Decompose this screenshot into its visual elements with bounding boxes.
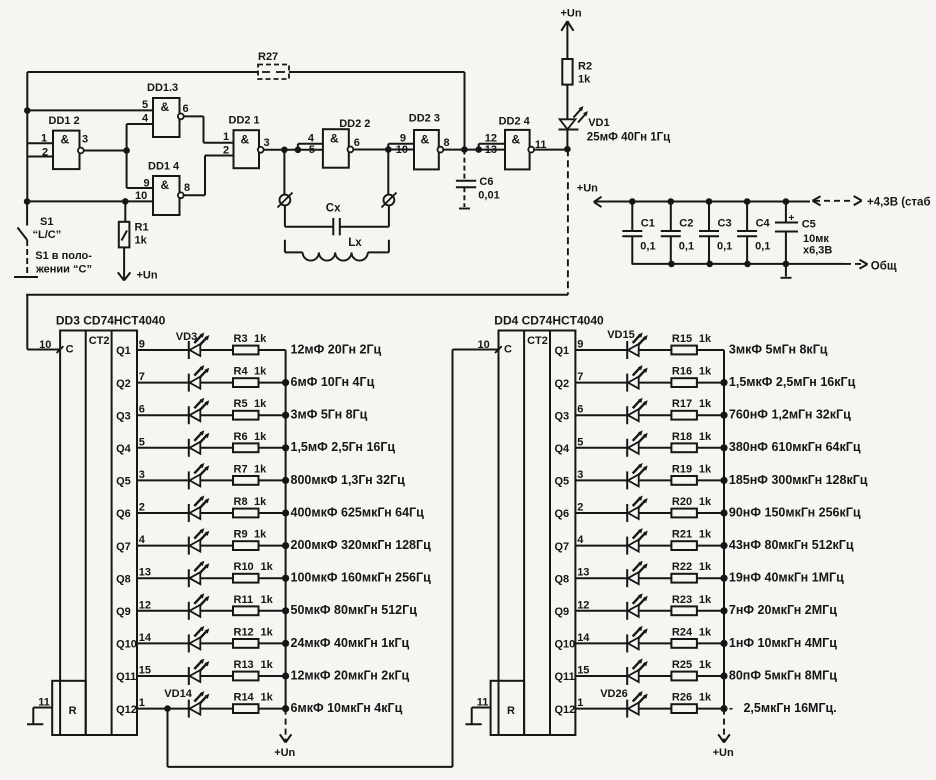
- wire: [200, 610, 233, 612]
- svg-text:6: 6: [577, 404, 583, 416]
- svg-text:1k: 1k: [254, 463, 267, 475]
- node bus junction: [282, 640, 289, 647]
- LED VD6: [189, 430, 210, 457]
- svg-text:90нФ 150мкГн 256кГц: 90нФ 150мкГн 256кГц: [729, 505, 861, 519]
- svg-text:1нФ 10мкГн 4МГц: 1нФ 10мкГн 4МГц: [729, 636, 837, 650]
- wire: [697, 479, 724, 481]
- svg-text:DD4 CD74HCT4040: DD4 CD74HCT4040: [494, 314, 604, 328]
- power +Un arrow at DD4 bus: [713, 709, 734, 759]
- NAND gate DD2.4: [499, 116, 534, 170]
- svg-text:0,1: 0,1: [640, 241, 655, 253]
- wire: [697, 447, 724, 449]
- svg-text:C5: C5: [802, 219, 816, 231]
- svg-text:C1: C1: [641, 218, 655, 230]
- svg-text:S1: S1: [40, 216, 53, 228]
- resistor R6 1k: [233, 431, 267, 452]
- node bus junction: [720, 412, 727, 419]
- node bus junction: [282, 477, 289, 484]
- wire to Cx left terminal: [283, 150, 285, 195]
- svg-text:12: 12: [577, 599, 589, 611]
- wire: [137, 708, 189, 710]
- wire DD3 Q12 to DD4 clock routing: [168, 350, 499, 767]
- resistor R12 1k: [233, 626, 274, 647]
- inductor Lx (device under test): [285, 237, 389, 261]
- svg-text:+Un: +Un: [274, 747, 295, 759]
- wire feedback vertical from top rail: [464, 72, 466, 150]
- svg-text:380нФ 610мкГн 64кГц: 380нФ 610мкГн 64кГц: [729, 440, 861, 454]
- svg-text:9: 9: [400, 133, 406, 145]
- resistor R16 1k: [671, 366, 712, 387]
- node DD2.2 input split: [295, 147, 302, 154]
- R sub-box of DD3: [52, 681, 85, 735]
- svg-text:10: 10: [478, 339, 490, 351]
- svg-text:0,01: 0,01: [478, 190, 499, 202]
- svg-text:1,5мФ 2,5Гн 16Гц: 1,5мФ 2,5Гн 16Гц: [291, 440, 396, 454]
- LED VD25: [627, 659, 648, 686]
- wire: [200, 675, 233, 677]
- resistor R27 (dashed optional): [258, 51, 289, 79]
- wire: [259, 382, 286, 384]
- svg-text:+4,3В (стаб: +4,3В (стаб: [867, 197, 931, 209]
- LED VD5: [189, 398, 210, 425]
- wire DD2.3 output: [443, 149, 478, 151]
- wire: [697, 414, 724, 416]
- wire: [575, 642, 627, 644]
- svg-text:0,1: 0,1: [717, 241, 732, 253]
- svg-text:Q7: Q7: [555, 541, 570, 553]
- svg-text:Q5: Q5: [555, 476, 570, 488]
- power +Un arrow top: [561, 8, 582, 60]
- resistor R18 1k: [671, 431, 712, 452]
- svg-text:1k: 1k: [699, 463, 712, 475]
- svg-text:1k: 1k: [699, 431, 712, 443]
- node bus junction: [282, 412, 289, 419]
- svg-text:7: 7: [139, 371, 145, 383]
- svg-text:DD1 2: DD1 2: [49, 115, 80, 127]
- wire: [137, 642, 189, 644]
- node DD2.4 input split: [475, 146, 482, 153]
- wire: [575, 708, 627, 710]
- svg-text:C2: C2: [679, 218, 693, 230]
- svg-text:1k: 1k: [254, 333, 267, 345]
- svg-text:R21: R21: [672, 529, 692, 541]
- resistor R25 1k: [671, 659, 712, 680]
- svg-text:C: C: [66, 344, 74, 356]
- LED VD22: [627, 561, 648, 588]
- LED VD1: [559, 106, 671, 144]
- resistor R3 1k: [233, 333, 267, 354]
- resistor R23 1k: [671, 594, 712, 615]
- svg-text:4: 4: [142, 113, 149, 125]
- svg-text:760нФ 1,2мГн 32кГц: 760нФ 1,2мГн 32кГц: [729, 408, 851, 422]
- svg-text:100мкФ 160мкГн 256Гц: 100мкФ 160мкГн 256Гц: [291, 571, 432, 585]
- svg-text:- 2,5мкГн 16МГц.: - 2,5мкГн 16МГц.: [729, 701, 837, 715]
- svg-text:12: 12: [485, 133, 497, 145]
- wire: [639, 447, 672, 449]
- wire: [137, 675, 189, 677]
- wire: [639, 577, 672, 579]
- wire ground rail (Obsh): [632, 260, 897, 273]
- svg-text:1k: 1k: [699, 333, 712, 345]
- svg-text:6мкФ 10мкГн 4кГц: 6мкФ 10мкГн 4кГц: [291, 701, 403, 715]
- wire: [137, 447, 189, 449]
- svg-text:R15: R15: [672, 333, 692, 345]
- resistor R4 1k: [233, 366, 267, 387]
- svg-text:3: 3: [139, 469, 145, 481]
- wire: [259, 642, 286, 644]
- capacitor C6 0,01: [456, 150, 500, 209]
- svg-text:3: 3: [264, 137, 270, 149]
- wire: [200, 708, 233, 710]
- wire: [575, 512, 627, 514]
- svg-text:9: 9: [144, 178, 150, 190]
- resistor R17 1k: [671, 398, 712, 419]
- wire bottom rail of oscillator loop: [26, 294, 568, 296]
- wire DD2.1 output: [264, 149, 298, 151]
- svg-text:R4: R4: [234, 366, 249, 378]
- svg-text:3: 3: [82, 134, 88, 146]
- wire vertical to DD1.3 pin4 / DD1.4 pin9: [126, 124, 128, 188]
- terminal X1 (Cx/Lx left socket): [278, 193, 293, 208]
- svg-text:43нФ 80мкГн 512кГц: 43нФ 80мкГн 512кГц: [729, 538, 854, 552]
- wire: [575, 382, 627, 384]
- arrow pair to +4,3V supply: [813, 196, 931, 209]
- wire VD1 to node: [566, 130, 568, 150]
- resistor R26 1k: [671, 692, 712, 713]
- wire: [200, 545, 233, 547]
- svg-text:12мкФ 20мкГн 2кГц: 12мкФ 20мкГн 2кГц: [291, 668, 410, 682]
- NAND gate DD2.3: [409, 112, 444, 169]
- svg-text:Q10: Q10: [555, 639, 576, 651]
- wire DD2.4 output to VD1 node: [534, 149, 567, 151]
- svg-text:8: 8: [444, 137, 450, 149]
- svg-text:10: 10: [39, 339, 51, 351]
- LED VD9: [189, 528, 210, 555]
- svg-text:Q9: Q9: [555, 606, 570, 618]
- svg-text:13: 13: [577, 567, 589, 579]
- svg-text:R11: R11: [234, 594, 254, 606]
- node bus junction: [720, 607, 727, 614]
- wire: [259, 675, 286, 677]
- capacitor C4 0,1: [737, 202, 770, 264]
- svg-text:5: 5: [577, 436, 583, 448]
- wire VD1 node down to bottom rail: [567, 149, 569, 295]
- capacitor C2 0,1: [661, 202, 694, 264]
- wire: [575, 349, 627, 351]
- resistor R21 1k: [671, 529, 712, 550]
- node Cx left terminal tap: [281, 147, 288, 154]
- svg-text:1k: 1k: [135, 235, 148, 247]
- svg-text:R19: R19: [672, 463, 692, 475]
- svg-text:0,1: 0,1: [755, 241, 770, 253]
- svg-text:C: C: [504, 344, 512, 356]
- wire top feedback rail: [27, 71, 258, 73]
- wire: [200, 447, 233, 449]
- wire left drop to DD3 clock: [26, 295, 28, 350]
- svg-text:C6: C6: [479, 176, 493, 188]
- svg-text:R: R: [507, 705, 515, 717]
- svg-text:Q12: Q12: [116, 704, 137, 716]
- svg-text:1k: 1k: [699, 561, 712, 573]
- node C6 / feedback junction: [461, 146, 468, 153]
- LED VD3: [189, 333, 210, 360]
- node bus junction: [282, 705, 289, 712]
- node bus junction: [282, 379, 289, 386]
- svg-text:R12: R12: [234, 626, 254, 638]
- ground symbol at DD3 pin 11: [27, 708, 43, 725]
- svg-text:1k: 1k: [699, 496, 712, 508]
- wire: [259, 610, 286, 612]
- node bus junction: [282, 542, 289, 549]
- wire: [639, 382, 672, 384]
- wire: [639, 708, 672, 710]
- wire split stub to DD2.3 pins 9/10: [387, 144, 389, 150]
- node bus junction: [282, 575, 289, 582]
- wire: [639, 414, 672, 416]
- svg-text:2: 2: [42, 147, 48, 159]
- svg-text:Q9: Q9: [116, 606, 131, 618]
- svg-text:R14: R14: [234, 692, 255, 704]
- wire: [259, 414, 286, 416]
- svg-text:24мкФ 40мкГн 1кГц: 24мкФ 40мкГн 1кГц: [291, 636, 410, 650]
- svg-text:R27: R27: [258, 51, 278, 63]
- svg-text:&: &: [330, 132, 339, 146]
- svg-text:1k: 1k: [261, 561, 274, 573]
- svg-text:800мкФ 1,3Гн 32Гц: 800мкФ 1,3Гн 32Гц: [291, 473, 406, 487]
- node bus junction: [720, 640, 727, 647]
- svg-text:15: 15: [577, 665, 589, 677]
- resistor R24 1k: [671, 626, 712, 647]
- svg-text:&: &: [421, 133, 430, 147]
- svg-text:R26: R26: [672, 692, 692, 704]
- LED VD13: [189, 659, 210, 686]
- svg-text:C4: C4: [756, 218, 771, 230]
- svg-text:Q1: Q1: [555, 345, 570, 357]
- svg-text:1: 1: [577, 697, 583, 709]
- node R1 tap: [122, 198, 129, 205]
- NAND gate DD1.2: [49, 115, 84, 169]
- wire: [575, 545, 627, 547]
- LED VD7: [189, 463, 210, 490]
- wire: [575, 447, 627, 449]
- LED VD4: [189, 365, 210, 392]
- svg-text:1k: 1k: [699, 398, 712, 410]
- svg-text:6мФ 10Гн 4Гц: 6мФ 10Гн 4Гц: [291, 375, 375, 389]
- LED VD26: [627, 691, 648, 718]
- resistor R11 1k: [233, 594, 274, 615]
- wire lower input net y=201: [27, 200, 153, 202]
- wire: [259, 545, 286, 547]
- wire: [200, 577, 233, 579]
- wire: [639, 675, 672, 677]
- svg-text:DD2 4: DD2 4: [499, 116, 531, 128]
- svg-text:Lx: Lx: [348, 237, 362, 249]
- svg-text:5: 5: [139, 436, 145, 448]
- svg-text:1k: 1k: [254, 496, 267, 508]
- svg-text:DD2 2: DD2 2: [339, 118, 370, 130]
- svg-text:10мк: 10мк: [803, 233, 829, 245]
- svg-text:200мкФ 320мкГн 128Гц: 200мкФ 320мкГн 128Гц: [291, 538, 432, 552]
- svg-text:Q4: Q4: [116, 443, 132, 455]
- wire R2 to VD1: [566, 85, 568, 120]
- terminal X2 (Cx/Lx right socket): [382, 193, 397, 208]
- wire: [137, 512, 189, 514]
- svg-text:R22: R22: [672, 561, 692, 573]
- svg-text:9: 9: [139, 339, 145, 351]
- svg-text:1: 1: [41, 133, 47, 145]
- R sub-box of DD4: [491, 681, 524, 735]
- LED VD18: [627, 430, 648, 457]
- svg-text:2: 2: [577, 502, 583, 514]
- wire left vertical bus: [26, 72, 28, 202]
- LED VD10: [189, 561, 210, 588]
- svg-text:DD1.3: DD1.3: [147, 82, 178, 94]
- svg-text:Q8: Q8: [116, 573, 131, 585]
- wire: [200, 512, 233, 514]
- svg-text:3мкФ 5мГн 8кГц: 3мкФ 5мГн 8кГц: [729, 342, 828, 356]
- svg-text:Q11: Q11: [116, 671, 136, 683]
- svg-text:VD15: VD15: [607, 329, 635, 341]
- svg-text:11: 11: [477, 697, 489, 709]
- wire: [639, 642, 672, 644]
- wire DD1.2 output: [84, 150, 127, 152]
- resistor R10 1k: [233, 561, 274, 582]
- svg-text:жении “С”: жении “С”: [35, 264, 92, 276]
- node bus junction: [720, 705, 727, 712]
- svg-text:1k: 1k: [261, 659, 274, 671]
- svg-text:VD14: VD14: [164, 688, 192, 700]
- svg-text:1k: 1k: [699, 692, 712, 704]
- svg-text:1k: 1k: [699, 366, 712, 378]
- wire: [575, 479, 627, 481]
- wire: [697, 545, 724, 547]
- svg-text:R23: R23: [672, 594, 692, 606]
- LED VD15: [627, 333, 648, 360]
- node bus junction: [282, 509, 289, 516]
- wire output bus of DD3: [285, 350, 287, 709]
- node branch to DD4 clock: [164, 705, 171, 712]
- svg-text:Q6: Q6: [116, 508, 131, 520]
- svg-text:Q2: Q2: [116, 378, 131, 390]
- capacitor C3 0,1: [699, 202, 732, 264]
- svg-text:1k: 1k: [699, 529, 712, 541]
- LED VD23: [627, 593, 648, 620]
- wire DD1.3 output to DD2.1 pin1: [184, 115, 204, 117]
- LED VD14: [189, 691, 210, 718]
- node C2 tap: [668, 198, 675, 205]
- node bus junction: [282, 444, 289, 451]
- wire: [639, 545, 672, 547]
- node bus junction: [720, 379, 727, 386]
- svg-text:6: 6: [139, 404, 145, 416]
- wire to DD1.3 pin5: [27, 109, 153, 111]
- node C4 tap: [744, 198, 751, 205]
- svg-text:Q1: Q1: [116, 345, 131, 357]
- svg-text:R20: R20: [672, 496, 692, 508]
- svg-text:Q3: Q3: [116, 410, 131, 422]
- svg-text:CT2: CT2: [89, 335, 110, 347]
- svg-text:R: R: [69, 705, 77, 717]
- svg-text:Cx: Cx: [326, 203, 341, 215]
- wire: [697, 610, 724, 612]
- svg-text:VD1: VD1: [588, 117, 609, 129]
- svg-text:Q11: Q11: [555, 671, 575, 683]
- node bus junction: [720, 575, 727, 582]
- svg-text:&: &: [161, 100, 170, 114]
- switch S1: [14, 198, 92, 277]
- svg-text:VD26: VD26: [600, 688, 628, 700]
- wire: [697, 349, 724, 351]
- svg-text:DD2 3: DD2 3: [409, 112, 440, 124]
- wire: [575, 610, 627, 612]
- wire: [697, 577, 724, 579]
- svg-text:“L/C”: “L/C”: [33, 229, 62, 241]
- svg-text:R6: R6: [234, 431, 248, 443]
- node VD1 column junction: [564, 146, 571, 153]
- svg-text:6: 6: [354, 137, 360, 149]
- wire: [200, 382, 233, 384]
- svg-text:5: 5: [142, 99, 148, 111]
- wire: [697, 642, 724, 644]
- wire: [200, 349, 233, 351]
- svg-text:&: &: [512, 133, 521, 147]
- wire: [697, 708, 724, 710]
- svg-text:+Un: +Un: [713, 747, 734, 759]
- svg-text:R24: R24: [672, 626, 693, 638]
- wire: [137, 545, 189, 547]
- svg-text:8: 8: [184, 182, 190, 194]
- svg-text:R3: R3: [234, 333, 248, 345]
- LED VD24: [627, 626, 648, 653]
- svg-text:10: 10: [135, 190, 147, 202]
- resistor R5 1k: [233, 398, 267, 419]
- wire: [697, 512, 724, 514]
- svg-text:Q2: Q2: [555, 378, 570, 390]
- svg-text:11: 11: [38, 697, 50, 709]
- NAND gate DD2.2: [323, 118, 370, 168]
- svg-text:1,5мкФ 2,5мГн 16кГц: 1,5мкФ 2,5мГн 16кГц: [729, 375, 856, 389]
- wire: [259, 447, 286, 449]
- wire: [259, 479, 286, 481]
- svg-text:Q12: Q12: [555, 704, 576, 716]
- svg-text:х6,3В: х6,3В: [803, 245, 832, 257]
- wire split stub to DD2.2 pins 4/5: [297, 144, 299, 150]
- svg-text:12мФ 20Гн 2Гц: 12мФ 20Гн 2Гц: [291, 342, 382, 356]
- IC DD3 CD74HCT4040: [56, 314, 166, 736]
- resistor R20 1k: [671, 496, 712, 517]
- svg-text:7нФ 20мкГн 2МГц: 7нФ 20мкГн 2МГц: [729, 603, 837, 617]
- wire: [200, 642, 233, 644]
- svg-text:3мФ 5Гн 8Гц: 3мФ 5Гн 8Гц: [291, 408, 368, 422]
- svg-text:185нФ 300мкГн 128кГц: 185нФ 300мкГн 128кГц: [729, 473, 868, 487]
- svg-text:&: &: [161, 178, 170, 192]
- ground symbol at DD4 pin 11: [465, 708, 481, 725]
- wire: [137, 414, 189, 416]
- resistor R14 1k: [233, 692, 274, 713]
- wire: [137, 610, 189, 612]
- svg-text:1k: 1k: [261, 692, 274, 704]
- wire: [137, 382, 189, 384]
- svg-text:6: 6: [183, 103, 189, 115]
- node bus junction: [720, 444, 727, 451]
- node bus junction: [720, 477, 727, 484]
- resistor R2 1k: [562, 59, 592, 86]
- svg-text:4: 4: [577, 534, 584, 546]
- wire DD1.4 output to DD2.1 pin2: [184, 194, 205, 196]
- wire: [639, 349, 672, 351]
- svg-text:R5: R5: [234, 398, 248, 410]
- power +Un arrow to C bank: [577, 183, 633, 208]
